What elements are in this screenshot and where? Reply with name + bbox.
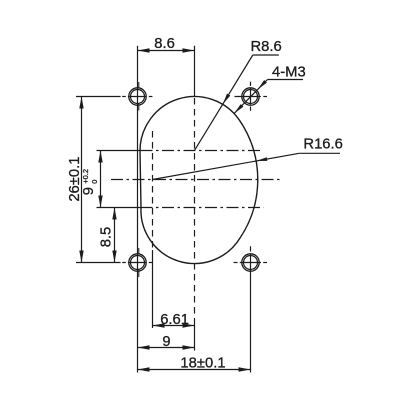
svg-text:9: 9 <box>162 334 170 350</box>
svg-text:0: 0 <box>90 180 99 184</box>
svg-text:+0.2: +0.2 <box>81 169 90 184</box>
svg-text:6.61: 6.61 <box>160 312 189 328</box>
svg-text:8.5: 8.5 <box>99 227 115 248</box>
svg-text:8.6: 8.6 <box>154 36 175 52</box>
svg-text:18±0.1: 18±0.1 <box>180 356 225 372</box>
svg-text:9: 9 <box>81 187 97 195</box>
svg-text:4-M3: 4-M3 <box>272 65 306 81</box>
svg-text:R8.6: R8.6 <box>251 39 282 55</box>
svg-text:R16.6: R16.6 <box>303 137 343 153</box>
